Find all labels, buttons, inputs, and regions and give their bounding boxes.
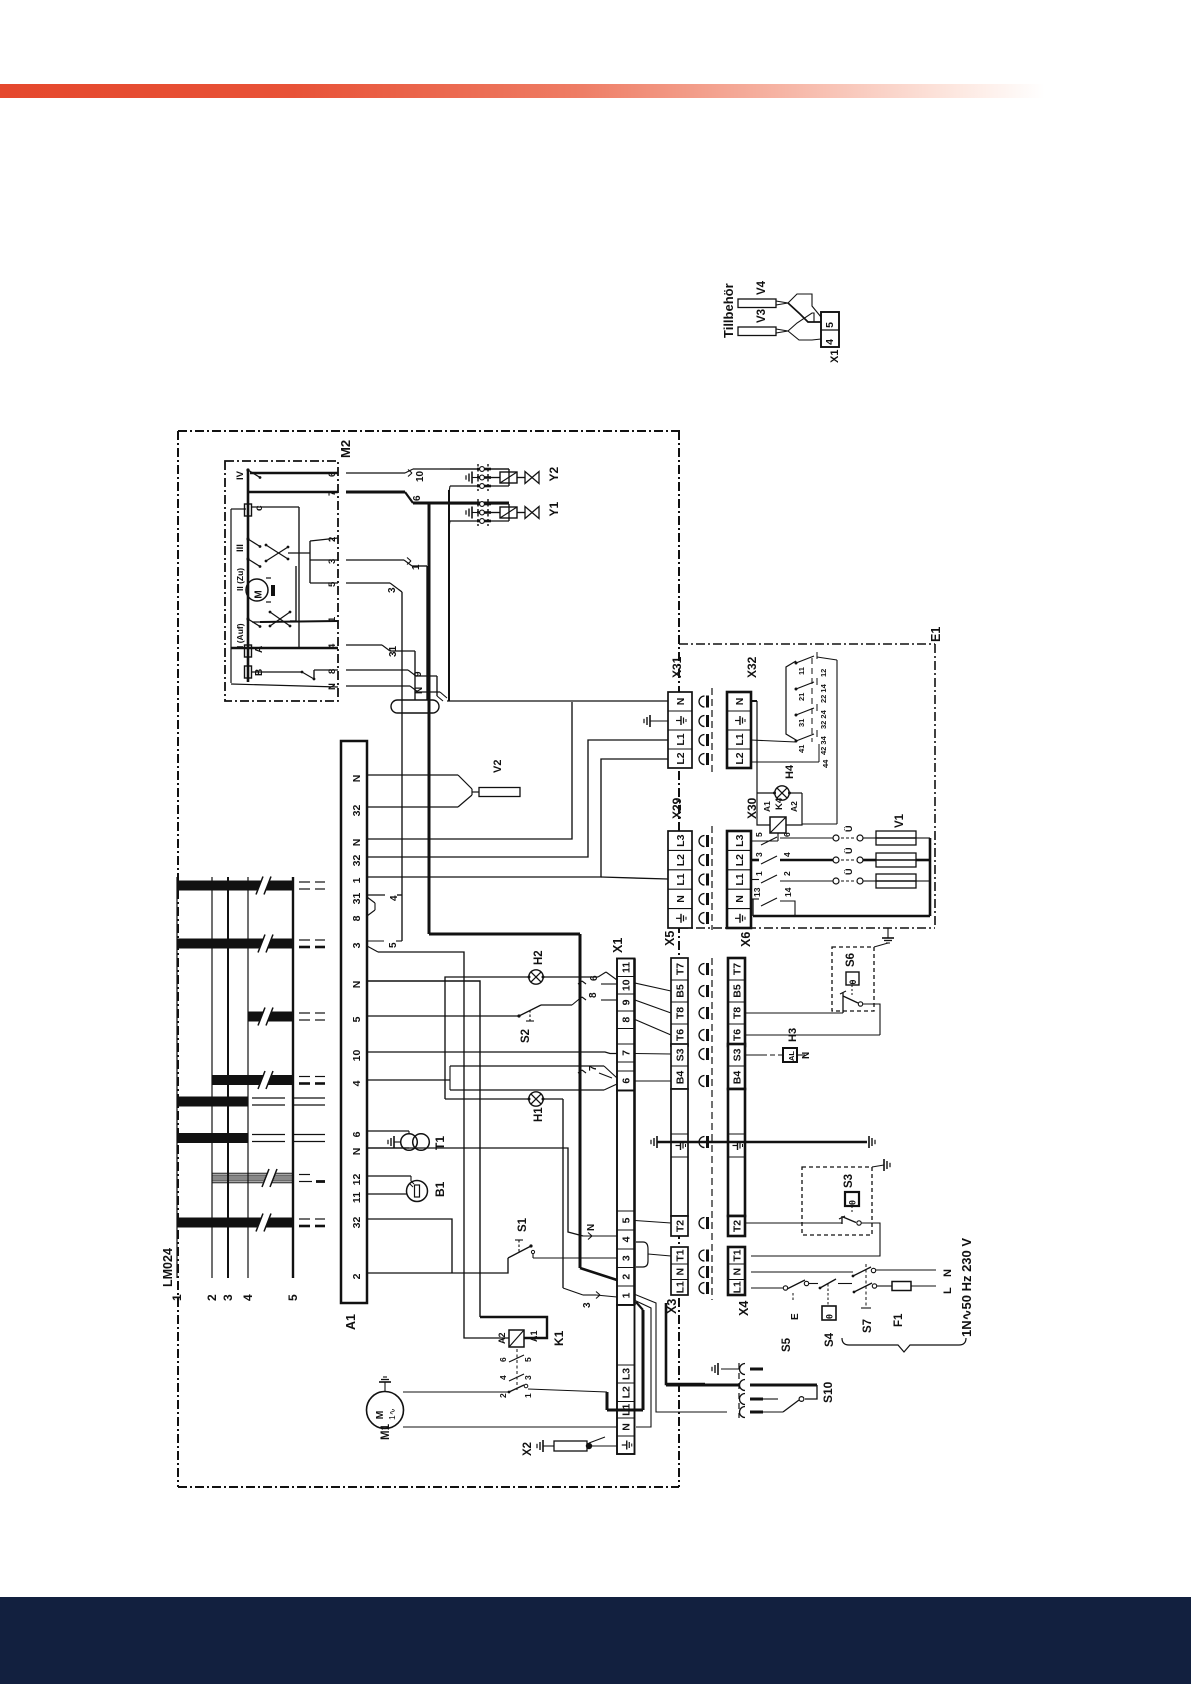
valve return wire to neutral bus xyxy=(448,490,450,701)
svg-text:5: 5 xyxy=(388,942,399,948)
svg-text:X32: X32 xyxy=(745,656,759,678)
external cable lines 1-5 xyxy=(170,877,300,1301)
svg-text:T1: T1 xyxy=(731,1249,743,1261)
svg-text:9: 9 xyxy=(413,671,424,677)
svg-text:6: 6 xyxy=(498,1357,508,1362)
svg-text:T2: T2 xyxy=(674,1220,686,1232)
svg-text:1: 1 xyxy=(327,616,338,622)
svg-text:7: 7 xyxy=(588,1065,599,1071)
svg-text:5: 5 xyxy=(824,322,836,328)
neutral wire A1:N to X1:4 xyxy=(367,1148,617,1240)
pump motor M1 xyxy=(367,1377,404,1440)
thermostat S3 (dashed box) xyxy=(802,1159,890,1235)
accessory connector X1 (4/5) xyxy=(821,312,841,363)
svg-text:21: 21 xyxy=(797,693,806,701)
svg-text:9: 9 xyxy=(621,999,633,1005)
svg-text:T7: T7 xyxy=(731,963,743,975)
fuse F1 xyxy=(877,1282,936,1328)
svg-text:H1: H1 xyxy=(533,1107,545,1122)
svg-text:K1: K1 xyxy=(552,1330,566,1346)
solenoid valve Y1 xyxy=(449,499,561,527)
svg-text:14: 14 xyxy=(783,887,793,897)
transformer T1 xyxy=(367,1131,447,1150)
svg-text:3: 3 xyxy=(582,1302,593,1308)
svg-text:4: 4 xyxy=(498,1375,508,1380)
svg-text:7: 7 xyxy=(327,491,338,496)
svg-text:41: 41 xyxy=(797,745,806,753)
svg-text:4: 4 xyxy=(389,895,400,901)
wire A1:4 to X1:6 xyxy=(367,1065,617,1090)
wire 1 from M2:3 xyxy=(346,558,427,701)
cable bundle bar 7 (multicore) xyxy=(212,1169,325,1187)
terminal strip X31 xyxy=(644,656,692,768)
svg-text:32: 32 xyxy=(351,1217,363,1229)
svg-text:12: 12 xyxy=(819,669,828,677)
electric heater V1 xyxy=(753,813,930,916)
M2 resistor c xyxy=(245,504,266,516)
wire X1 to N return xyxy=(634,1300,651,1427)
cable bundle bar 8 xyxy=(177,1214,325,1232)
svg-text:S7: S7 xyxy=(862,1319,874,1333)
svg-text:L2: L2 xyxy=(675,854,687,866)
svg-text:L1: L1 xyxy=(734,733,746,745)
svg-text:2: 2 xyxy=(351,1273,363,1279)
svg-text:8: 8 xyxy=(327,669,338,674)
svg-text:10: 10 xyxy=(351,1050,363,1062)
wire X1 to S10 xyxy=(634,1294,727,1412)
wire A1:3 to relay K1 coil A2 xyxy=(367,946,509,1338)
svg-text:2: 2 xyxy=(782,871,792,876)
svg-text:X4: X4 xyxy=(737,1301,751,1316)
wires X1 to X5 xyxy=(635,983,671,1256)
svg-text:3: 3 xyxy=(351,942,363,948)
svg-text:31: 31 xyxy=(797,719,806,727)
heater control contacts 5-6 3-4 1-2 13-14 xyxy=(751,832,833,916)
svg-text:B4: B4 xyxy=(731,1071,743,1085)
cable shield at X3 xyxy=(666,1303,705,1384)
svg-text:S6: S6 xyxy=(845,953,857,967)
svg-text:X6: X6 xyxy=(739,932,753,947)
svg-text:44: 44 xyxy=(821,759,830,768)
svg-text:N: N xyxy=(734,698,746,706)
wires X6 to S6 xyxy=(745,1004,880,1035)
terminal strip X5 xyxy=(663,931,688,1236)
svg-text:1: 1 xyxy=(621,1292,633,1298)
svg-text:6: 6 xyxy=(351,1131,363,1137)
svg-text:6: 6 xyxy=(782,832,792,837)
svg-text:11: 11 xyxy=(797,667,806,675)
svg-text:1N∿50 Hz 230 V: 1N∿50 Hz 230 V xyxy=(959,1238,974,1337)
wire 9 from M2:8 xyxy=(346,670,443,701)
thick mains wire from Y1 row down to X1 xyxy=(429,503,617,1280)
svg-text:3: 3 xyxy=(221,1294,235,1301)
svg-text:2: 2 xyxy=(621,1274,633,1280)
switch S2 circuit to X1:9 xyxy=(367,992,617,1043)
svg-text:32: 32 xyxy=(351,855,363,867)
svg-text:3: 3 xyxy=(754,852,764,857)
ground bus at X5/X6 xyxy=(651,1136,875,1148)
M2 resistor A xyxy=(245,645,266,657)
svg-text:6: 6 xyxy=(589,975,600,981)
svg-text:X29: X29 xyxy=(670,797,684,819)
svg-text:θ: θ xyxy=(825,1314,835,1319)
svg-text:K4: K4 xyxy=(774,797,785,810)
svg-text:X2: X2 xyxy=(522,1442,534,1456)
svg-text:B5: B5 xyxy=(731,984,743,998)
svg-text:L2: L2 xyxy=(734,854,746,866)
svg-text:3: 3 xyxy=(387,587,398,593)
svg-text:S4: S4 xyxy=(824,1332,836,1347)
svg-text:4: 4 xyxy=(327,643,338,649)
svg-text:F1: F1 xyxy=(893,1313,905,1327)
svg-text:A1: A1 xyxy=(529,1330,539,1342)
svg-text:S5: S5 xyxy=(781,1337,793,1352)
svg-text:Tillbehör: Tillbehör xyxy=(721,283,736,338)
svg-text:1: 1 xyxy=(523,1393,533,1398)
svg-text:III: III xyxy=(235,544,246,552)
svg-text:6: 6 xyxy=(327,472,338,477)
wire A1:1 to X31:L2 and X29:L1 xyxy=(367,759,668,879)
solenoid valve Y2 xyxy=(449,464,561,492)
svg-text:B5: B5 xyxy=(674,984,686,998)
svg-text:32: 32 xyxy=(351,805,363,817)
svg-text:10: 10 xyxy=(621,979,633,991)
svg-text:N: N xyxy=(675,895,687,903)
terminal strip X29 xyxy=(668,797,692,928)
svg-text:T7: T7 xyxy=(674,963,686,975)
svg-text:E1: E1 xyxy=(929,627,943,642)
svg-text:N: N xyxy=(801,1052,812,1059)
svg-text:T6: T6 xyxy=(674,1029,686,1041)
svg-text:5: 5 xyxy=(327,581,338,587)
cable bundle bar 2 xyxy=(177,935,325,953)
boiler unit boundary LM024 (dash-dot box) xyxy=(161,431,680,1487)
terminal strip X30 xyxy=(727,797,759,928)
svg-text:11: 11 xyxy=(351,1192,363,1203)
svg-text:M: M xyxy=(374,1410,386,1419)
svg-text:A1: A1 xyxy=(762,801,772,812)
svg-text:V3: V3 xyxy=(756,309,768,323)
switch S1 circuit to X1:3 xyxy=(367,1217,617,1273)
svg-text:S3: S3 xyxy=(674,1048,686,1061)
svg-text:2: 2 xyxy=(498,1393,508,1398)
svg-text:L3: L3 xyxy=(621,1368,633,1380)
svg-text:M2: M2 xyxy=(338,440,353,458)
svg-text:Ü: Ü xyxy=(844,869,854,876)
earth connector X2 xyxy=(522,1288,617,1456)
wires X6 to S3 and X4 to S3 xyxy=(745,1223,880,1256)
wire 10 from M2:6 to valve Y2 xyxy=(346,469,509,482)
svg-text:L1: L1 xyxy=(731,1281,743,1293)
ferrite sleeve on cable xyxy=(391,700,439,713)
plug V2 on A1 xyxy=(367,760,520,807)
wire A1:32 to X31:L1 xyxy=(367,740,668,857)
switch S5 xyxy=(751,1280,809,1352)
plug connector pins X5-X6 xyxy=(699,958,712,1300)
wire 3 from M2:5 down to A1 xyxy=(346,583,402,941)
svg-text:N: N xyxy=(674,1268,686,1276)
wire 4 bracket A1:31/8 xyxy=(367,895,402,916)
svg-text:X1: X1 xyxy=(829,350,841,363)
svg-text:T8: T8 xyxy=(731,1007,743,1019)
svg-text:6: 6 xyxy=(412,495,423,501)
thermostat S4 xyxy=(809,1279,852,1347)
svg-text:X5: X5 xyxy=(663,931,677,946)
svg-text:H2: H2 xyxy=(533,950,545,965)
M2 terminal numbers xyxy=(327,472,338,690)
svg-text:V1: V1 xyxy=(894,813,906,828)
svg-text:13: 13 xyxy=(752,887,762,897)
svg-text:H3: H3 xyxy=(787,1028,799,1042)
svg-text:5: 5 xyxy=(754,832,764,837)
svg-text:12: 12 xyxy=(351,1174,363,1186)
cable bundle bar 1 xyxy=(177,877,325,895)
svg-text:θ: θ xyxy=(848,979,858,984)
svg-text:T2: T2 xyxy=(731,1220,743,1232)
cable bundle bar 5 xyxy=(177,1097,325,1107)
svg-text:H4: H4 xyxy=(784,764,796,779)
svg-text:II (Zu): II (Zu) xyxy=(235,568,245,591)
terminal strip X32 xyxy=(727,656,759,768)
svg-text:T1: T1 xyxy=(674,1249,686,1261)
cable bundle bar 3 xyxy=(248,1008,325,1026)
wire A1:10 to X1:7 xyxy=(367,1052,617,1054)
svg-text:V4: V4 xyxy=(756,280,768,295)
earth symbol below E1 xyxy=(882,928,894,943)
cable bundle bar 4 xyxy=(212,1071,325,1089)
svg-text:10: 10 xyxy=(415,470,426,482)
svg-text:4: 4 xyxy=(782,852,792,857)
indicator lamp H1 circuit xyxy=(445,1092,617,1308)
svg-text:L2: L2 xyxy=(621,1386,633,1398)
M2 internal wiring mesh xyxy=(231,507,338,687)
svg-text:8: 8 xyxy=(351,915,363,921)
svg-text:L1: L1 xyxy=(675,733,687,745)
svg-text:N: N xyxy=(351,1148,363,1156)
svg-text:32 24: 32 24 xyxy=(819,709,828,729)
svg-text:4: 4 xyxy=(621,1236,633,1242)
svg-text:θ: θ xyxy=(848,1200,858,1205)
indicator lamp H4 xyxy=(751,701,802,800)
svg-text:Y1: Y1 xyxy=(547,501,561,516)
svg-text:22 14: 22 14 xyxy=(819,683,828,703)
svg-text:1: 1 xyxy=(754,871,764,876)
svg-text:L2: L2 xyxy=(675,752,687,764)
relay K1 xyxy=(497,1330,566,1398)
terminal strip X4 xyxy=(728,1247,751,1316)
svg-text:M1: M1 xyxy=(380,1423,392,1440)
flame sensor B1 xyxy=(367,1176,447,1202)
svg-text:8: 8 xyxy=(588,992,599,998)
svg-text:5: 5 xyxy=(351,1016,363,1022)
svg-text:N: N xyxy=(414,687,425,694)
svg-text:Ü: Ü xyxy=(844,848,854,855)
alarm indicator H3 xyxy=(745,1028,812,1062)
svg-text:N: N xyxy=(734,895,746,903)
svg-text:L1: L1 xyxy=(675,873,687,885)
svg-text:42 34: 42 34 xyxy=(819,735,828,755)
M2 resistor B xyxy=(245,666,266,678)
svg-text:X31: X31 xyxy=(670,656,684,678)
svg-text:3: 3 xyxy=(523,1375,533,1380)
svg-text:8: 8 xyxy=(621,1017,633,1023)
svg-text:2: 2 xyxy=(205,1294,219,1301)
control unit box E1 (dash-dot box) xyxy=(679,627,943,928)
svg-text:A2: A2 xyxy=(789,801,799,812)
svg-text:T8: T8 xyxy=(674,1007,686,1019)
svg-text:N: N xyxy=(621,1423,633,1431)
svg-text:N: N xyxy=(351,981,363,989)
svg-text:6: 6 xyxy=(621,1078,633,1084)
jumper bracket X1:4-3 xyxy=(636,1242,648,1267)
svg-text:L1: L1 xyxy=(674,1281,686,1293)
svg-text:AL: AL xyxy=(787,1051,796,1061)
svg-text:X1: X1 xyxy=(611,938,625,953)
supply brace and rating xyxy=(842,1238,974,1352)
svg-text:E: E xyxy=(790,1313,801,1320)
svg-text:S2: S2 xyxy=(520,1029,532,1043)
svg-text:S10: S10 xyxy=(821,1381,835,1403)
svg-text:IV: IV xyxy=(235,470,246,480)
svg-text:5: 5 xyxy=(286,1294,300,1301)
svg-text:1: 1 xyxy=(411,564,422,570)
indicator lamp H2 circuit xyxy=(445,950,617,1099)
svg-text:L3: L3 xyxy=(734,834,746,846)
wire A1:32 down to S1 row xyxy=(367,1219,452,1273)
svg-text:N: N xyxy=(327,683,338,690)
svg-text:1: 1 xyxy=(170,1294,184,1301)
svg-text:LM024: LM024 xyxy=(161,1248,175,1287)
svg-text:31: 31 xyxy=(351,893,363,905)
svg-text:S3: S3 xyxy=(731,1048,743,1061)
svg-text:5: 5 xyxy=(621,1217,633,1223)
terminal strip X1 xyxy=(611,938,635,1454)
wire A1:N to relay K1 coil A1 xyxy=(367,981,547,1338)
svg-text:7: 7 xyxy=(621,1050,633,1056)
plug connector pins X31-X32 xyxy=(699,688,712,772)
svg-text:T6: T6 xyxy=(731,1029,743,1041)
svg-text:c: c xyxy=(254,505,265,511)
svg-text:Y2: Y2 xyxy=(547,466,561,481)
terminal strip X3 xyxy=(665,1247,688,1314)
mains switch S7 (2-pole) xyxy=(751,1264,936,1333)
svg-text:11: 11 xyxy=(621,962,633,973)
svg-text:S3: S3 xyxy=(843,1174,855,1188)
svg-text:4: 4 xyxy=(824,339,836,345)
svg-text:A1: A1 xyxy=(344,1314,358,1330)
cable bundle bar 6 xyxy=(177,1133,325,1143)
plug connector pins X29-X30 xyxy=(699,826,712,930)
svg-text:M: M xyxy=(254,590,265,598)
svg-text:B4: B4 xyxy=(674,1071,686,1085)
svg-text:I (Auf): I (Auf) xyxy=(235,623,245,648)
M2 motor M xyxy=(246,578,275,602)
terminal strip X6 xyxy=(728,932,753,1236)
wire A1:N to X31:N xyxy=(367,702,572,839)
svg-text:N: N xyxy=(942,1269,954,1277)
svg-text:N: N xyxy=(731,1268,743,1276)
accessory label Tillbeh&#246;r xyxy=(721,283,736,338)
svg-text:N: N xyxy=(586,1224,597,1231)
accessory wiring xyxy=(788,294,821,340)
svg-text:V2: V2 xyxy=(492,760,504,773)
svg-text:L1: L1 xyxy=(734,873,746,885)
svg-text:L: L xyxy=(942,1287,954,1294)
svg-text:3: 3 xyxy=(327,559,338,564)
M2 internal cam switch bus xyxy=(248,470,338,682)
wire 31 from M2:4 xyxy=(346,645,415,700)
burner control unit A1 terminal strip xyxy=(341,741,367,1330)
svg-text:Ü: Ü xyxy=(844,826,854,833)
relay K4 contact bank xyxy=(751,652,837,824)
sensor V4 xyxy=(738,280,788,307)
svg-text:L2: L2 xyxy=(734,752,746,764)
thick wire X1:1 to pump circuit xyxy=(607,1302,643,1410)
svg-text:A2: A2 xyxy=(497,1332,507,1344)
relay K4 coil xyxy=(751,793,802,841)
svg-text:31: 31 xyxy=(388,645,399,657)
damper actuator M2 (dash-dot box) xyxy=(225,440,353,701)
svg-text:N: N xyxy=(351,775,363,783)
svg-text:L3: L3 xyxy=(675,834,687,846)
svg-text:5: 5 xyxy=(523,1357,533,1362)
svg-text:S1: S1 xyxy=(517,1217,529,1232)
wire N from M2:N to N bus xyxy=(346,686,447,698)
svg-text:N: N xyxy=(351,839,363,847)
thermostat S6 (dashed box) xyxy=(832,943,888,1013)
svg-text:4: 4 xyxy=(241,1294,255,1301)
svg-text:2: 2 xyxy=(327,537,338,542)
pump circuit wires through K1 contact xyxy=(403,1384,617,1427)
pressure switch S10 connector xyxy=(666,1363,835,1418)
M2 cam contacts IV III II I xyxy=(235,468,261,648)
svg-text:3: 3 xyxy=(621,1255,633,1261)
svg-text:4: 4 xyxy=(351,1080,363,1086)
overheat cutouts U xyxy=(833,826,876,885)
sensor V3 xyxy=(738,309,788,336)
neutral bus to X31:N xyxy=(447,700,668,702)
wire 6 (thick) from M2:7 to valve Y1 xyxy=(346,492,509,503)
mains labels L N xyxy=(942,1269,954,1294)
wire 5 into A1:3 xyxy=(367,941,402,948)
svg-text:1∿: 1∿ xyxy=(387,1408,397,1420)
svg-text:B1: B1 xyxy=(433,1181,447,1197)
svg-text:1: 1 xyxy=(351,877,363,883)
svg-text:N: N xyxy=(675,698,687,706)
